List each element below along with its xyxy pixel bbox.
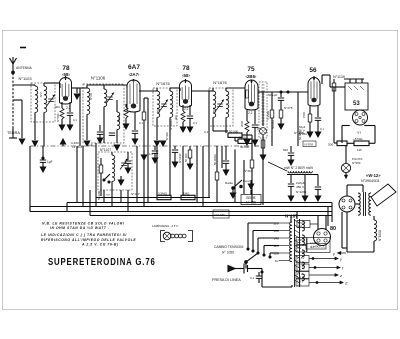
svg-text:N°1675: N°1675 (156, 81, 170, 86)
svg-text:80: 80 (330, 226, 336, 232)
svg-text:56: 56 (309, 67, 317, 74)
svg-text:0,5MΩ: 0,5MΩ (158, 191, 168, 195)
svg-text:50.000Ω: 50.000Ω (213, 154, 217, 165)
svg-text:N°100A: N°100A (378, 229, 382, 241)
svg-text:1μF: 1μF (47, 160, 53, 164)
svg-text:0,1: 0,1 (73, 118, 77, 122)
svg-text:L=40Ω C.L.: L=40Ω C.L. (311, 244, 326, 248)
svg-text:Y?: Y? (357, 131, 361, 135)
svg-text:N°1107: N°1107 (100, 148, 111, 152)
svg-text:50.000: 50.000 (229, 129, 239, 133)
svg-text:N°503: N°503 (352, 161, 361, 165)
svg-text:Y: Y (297, 249, 299, 253)
svg-text:75: 75 (247, 66, 255, 73)
svg-text:50mμF: 50mμF (268, 93, 278, 97)
svg-text:‹2B6›: ‹2B6› (246, 74, 258, 79)
svg-text:1W: 1W (357, 148, 362, 152)
svg-text:5000: 5000 (239, 135, 246, 139)
svg-text:450 V: 450 V (296, 185, 305, 189)
svg-text:N°964: N°964 (299, 132, 307, 136)
svg-text:N°1103: N°1103 (18, 76, 32, 81)
svg-text:350Ω: 350Ω (117, 115, 121, 122)
svg-text:0,1: 0,1 (250, 276, 255, 280)
svg-text:N°978: N°978 (305, 142, 314, 146)
svg-text:N°287: N°287 (285, 214, 298, 219)
svg-text:PRESA DI LINEA: PRESA DI LINEA (212, 278, 241, 282)
svg-text:‹2A7›: ‹2A7› (129, 72, 141, 77)
svg-text:SUPERETERODINA G.76: SUPERETERODINA G.76 (48, 256, 156, 267)
svg-text:N°1139: N°1139 (333, 75, 345, 79)
svg-text:5000Ω: 5000Ω (271, 119, 275, 129)
svg-text:2 A: 2 A (297, 283, 301, 287)
svg-text:0,1: 0,1 (320, 127, 324, 131)
svg-text:V.1MΩ: V.1MΩ (266, 110, 270, 120)
svg-text:ANTENNA: ANTENNA (16, 66, 33, 70)
svg-text:N°500: N°500 (56, 113, 60, 122)
svg-text:2 A: 2 A (298, 224, 302, 228)
svg-text:50.000: 50.000 (184, 153, 188, 162)
svg-text:N°400: N°400 (165, 132, 169, 140)
svg-text:N°278: N°278 (284, 106, 293, 110)
svg-text:mW N° 2 BER mWt: mW N° 2 BER mWt (284, 166, 313, 170)
svg-text:500: 500 (328, 143, 333, 147)
svg-text:2,2: 2,2 (248, 111, 253, 115)
svg-text:50.000: 50.000 (97, 190, 101, 200)
svg-text:1,0: 1,0 (149, 152, 154, 156)
svg-text:300: 300 (174, 115, 178, 120)
svg-text:LE INDICAZIONI C ( ) TRA PAREN: LE INDICAZIONI C ( ) TRA PARENTESI SI (41, 233, 127, 237)
svg-text:N°1676: N°1676 (213, 80, 227, 85)
svg-text:IN OHM STAN DA ½D WATT .: IN OHM STAN DA ½D WATT . (50, 226, 109, 230)
svg-text:N°2: N°2 (39, 92, 43, 97)
svg-text:LAMPADINA . 2 T F: LAMPADINA . 2 T F (152, 224, 179, 228)
svg-text:N°1410: N°1410 (178, 153, 182, 163)
svg-text:N°364: N°364 (244, 169, 253, 173)
svg-text:2000: 2000 (240, 120, 244, 127)
svg-text:N° 1050: N° 1050 (222, 251, 234, 255)
svg-text:78: 78 (62, 65, 70, 72)
svg-text:y: y (333, 252, 335, 256)
svg-text:Y?: Y? (106, 193, 110, 197)
svg-text:N°5: N°5 (156, 107, 160, 112)
svg-text:«W-12»: «W-12» (366, 173, 381, 178)
svg-text:A 2,5 V. CG 76-B): A 2,5 V. CG 76-B) (81, 243, 119, 247)
svg-text:Fono: Fono (243, 179, 250, 183)
svg-text:6A7: 6A7 (128, 64, 140, 71)
svg-text:0,1: 0,1 (193, 121, 197, 125)
svg-text:CAMBIO TENSIONI: CAMBIO TENSIONI (214, 245, 244, 249)
svg-text:z: z (339, 273, 342, 278)
svg-text:0,1: 0,1 (139, 121, 143, 125)
svg-text:N°1280: N°1280 (215, 213, 225, 217)
svg-text:2,2: 2,2 (66, 106, 71, 110)
svg-text:300: 300 (55, 105, 60, 109)
svg-text:1500: 1500 (302, 111, 306, 118)
svg-text:SERIE: SERIE (246, 196, 256, 200)
svg-text:N°100Ω: N°100Ω (169, 119, 173, 130)
svg-text:53: 53 (353, 101, 360, 107)
svg-text:N°12Y: N°12Y (131, 192, 140, 196)
svg-text:500: 500 (283, 148, 288, 152)
svg-text:N°1106: N°1106 (91, 76, 106, 81)
svg-text:‹58›: ‹58› (182, 73, 190, 78)
svg-text:+570Ω-: +570Ω- (353, 137, 363, 141)
svg-text:2,2: 2,2 (184, 107, 189, 111)
svg-text:Z: Z (344, 281, 348, 286)
svg-text:1MΩ: 1MΩ (183, 191, 190, 195)
svg-text:50.000: 50.000 (240, 145, 250, 149)
svg-text:N°3904/511: N°3904/511 (361, 179, 380, 183)
svg-text:7 A: 7 A (297, 259, 301, 263)
svg-text:‹58›: ‹58› (62, 72, 70, 77)
svg-text:RIFERISCONO ALL'IMPIEGO DELLE: RIFERISCONO ALL'IMPIEGO DELLE VALVOLE (41, 238, 136, 242)
svg-text:N.B. LE RESISTENZE CB SOLO V: N.B. LE RESISTENZE CB SOLO VALORI (42, 222, 124, 226)
svg-text:0,5: 0,5 (257, 127, 261, 131)
svg-text:78: 78 (182, 65, 190, 72)
svg-text:Radio: Radio (225, 181, 233, 185)
svg-text:1 V: 1 V (297, 241, 301, 245)
svg-text:+1 5Ω3: +1 5Ω3 (72, 145, 82, 149)
svg-text:N°5: N°5 (212, 107, 216, 112)
svg-text:TERRA: TERRA (7, 131, 20, 135)
svg-text:0,1: 0,1 (204, 130, 209, 134)
svg-text:N°1Ω: N°1Ω (89, 93, 93, 100)
svg-text:AμF: AμF (87, 143, 93, 147)
